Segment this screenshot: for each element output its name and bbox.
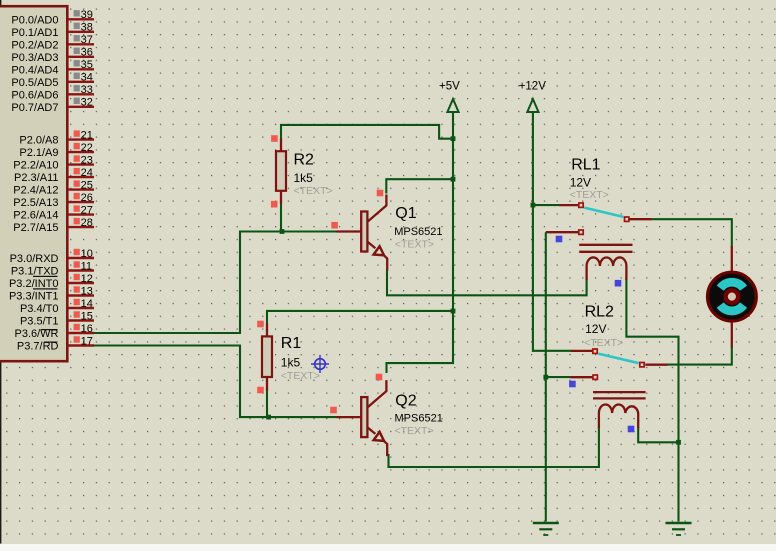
window edge line <box>0 0 1 544</box>
relay RL1 core <box>579 245 632 252</box>
svg-text:36: 36 <box>81 47 93 59</box>
pin 28 P2.7/A15 <box>13 217 94 234</box>
pin 15 P3.5/T1 <box>20 310 94 327</box>
transistor Q2 <box>337 380 388 456</box>
svg-text:<TEXT>: <TEXT> <box>395 239 434 251</box>
svg-text:P2.0/A8: P2.0/A8 <box>19 135 58 147</box>
lead RL1 NO contact <box>629 218 652 220</box>
overbar WR <box>41 329 58 330</box>
svg-text:P0.0/AD0: P0.0/AD0 <box>11 14 58 26</box>
svg-text:RL1: RL1 <box>571 156 600 173</box>
ground right <box>666 523 692 535</box>
svg-text:P2.5/A13: P2.5/A13 <box>13 197 58 209</box>
state marker blue 4 <box>628 426 635 433</box>
pin 22 P2.1/A9 <box>19 142 94 159</box>
resistor R1 <box>262 324 272 391</box>
pin 25 P2.4/A12 <box>13 179 94 196</box>
wire RL1 NO to motor top <box>652 219 732 247</box>
state marker red 1 <box>271 135 278 142</box>
wire R1 bottom to node B <box>266 389 268 417</box>
pin 26 P2.5/A13 <box>13 192 94 209</box>
svg-text:15: 15 <box>81 310 93 322</box>
overbar INT0 <box>33 276 58 277</box>
wire +12V rail <box>533 111 572 351</box>
RL2 NO contact <box>640 363 644 367</box>
relay RL1 coil <box>587 257 627 280</box>
svg-text:P3.2/INT0: P3.2/INT0 <box>9 278 59 290</box>
lead RL2 pole <box>571 350 592 352</box>
resistor R2 <box>276 139 286 204</box>
pin 23 P2.2/A10 <box>13 154 94 171</box>
svg-text:P2.3/A11: P2.3/A11 <box>14 172 58 184</box>
svg-text:37: 37 <box>81 34 93 46</box>
svg-text:P3.4/T0: P3.4/T0 <box>20 303 59 315</box>
svg-text:P0.1/AD1: P0.1/AD1 <box>11 27 58 39</box>
state marker red 2 <box>271 201 278 208</box>
svg-text:10: 10 <box>81 248 93 260</box>
svg-text:<TEXT>: <TEXT> <box>584 337 623 349</box>
svg-text:13: 13 <box>81 285 93 297</box>
svg-text:<TEXT>: <TEXT> <box>570 189 609 201</box>
power +5V <box>439 81 460 113</box>
power +12V <box>519 81 547 113</box>
svg-text:R1: R1 <box>281 335 302 352</box>
pin 39 P0.0/AD0 <box>11 9 94 26</box>
svg-text:P0.6/AD6: P0.6/AD6 <box>11 89 58 101</box>
state marker blue 3 <box>569 381 576 388</box>
pin 34 P0.5/AD5 <box>11 72 94 89</box>
transistor Q1 <box>337 195 388 271</box>
wire pin16 to node A <box>94 232 337 334</box>
state marker blue 2 <box>615 280 622 287</box>
svg-text:Q2: Q2 <box>395 393 416 410</box>
junction (453,311) <box>451 309 456 314</box>
ground left <box>533 523 559 535</box>
lead RL2 NO contact <box>645 364 667 366</box>
motor bottom lead <box>731 322 733 348</box>
svg-text:+5V: +5V <box>439 81 460 93</box>
svg-text:28: 28 <box>81 217 93 229</box>
svg-text:P2.4/A12: P2.4/A12 <box>13 185 58 197</box>
microcontroller U1 body <box>0 6 67 361</box>
pin 14 P3.4/T0 <box>20 298 94 315</box>
wire RL1 coil to ground rail <box>626 277 678 522</box>
state marker blue 1 <box>556 236 563 243</box>
pin 35 P0.4/AD4 <box>11 59 94 76</box>
svg-text:P0.4/AD4: P0.4/AD4 <box>11 64 58 76</box>
pin 36 P0.3/AD3 <box>11 47 94 64</box>
pin 16 P3.6/WR <box>14 323 94 340</box>
RL1 pole contact <box>579 203 583 207</box>
svg-text:MPS6521: MPS6521 <box>394 226 442 238</box>
wire +5V rail <box>387 111 454 374</box>
wire Q1 collector to rail <box>386 179 453 193</box>
RL2 NC contact <box>593 375 597 379</box>
svg-text:1k5: 1k5 <box>294 171 314 185</box>
lead RL1 pole <box>560 204 579 206</box>
svg-text:MPS6521: MPS6521 <box>395 412 443 424</box>
svg-text:12V: 12V <box>585 322 606 336</box>
wire RL1 NC to ground <box>545 232 547 521</box>
svg-text:RL2: RL2 <box>585 304 614 321</box>
wire pin17 to node B <box>94 346 337 418</box>
RL1 NC contact <box>579 230 583 234</box>
state marker red 4 <box>377 190 384 197</box>
pin 37 P0.2/AD2 <box>11 34 94 51</box>
relay RL2 coil <box>599 405 638 429</box>
wire Q1 emitter to RL1 coil <box>387 270 587 295</box>
svg-text:21: 21 <box>81 129 93 141</box>
svg-text:12: 12 <box>81 273 93 285</box>
lead RL1 NC contact <box>546 231 579 233</box>
overbar RD <box>44 342 58 343</box>
svg-text:23: 23 <box>81 154 93 166</box>
svg-text:Q1: Q1 <box>395 205 416 222</box>
svg-text:P2.6/A14: P2.6/A14 <box>13 210 58 222</box>
svg-text:38: 38 <box>81 22 93 34</box>
junction (678.5,442.3) <box>676 440 681 445</box>
RL2 armature <box>598 354 638 364</box>
pin 17 P3.7/RD <box>17 335 94 352</box>
svg-text:11: 11 <box>81 260 92 272</box>
junction (268.6,417.1) <box>266 415 271 420</box>
svg-text:16: 16 <box>81 323 93 335</box>
pin 24 P2.3/A11 <box>14 167 94 184</box>
svg-text:24: 24 <box>81 167 93 179</box>
svg-text:<TEXT>: <TEXT> <box>294 185 333 197</box>
svg-text:P3.0/RXD: P3.0/RXD <box>10 253 59 265</box>
svg-text:P0.3/AD3: P0.3/AD3 <box>11 52 58 64</box>
svg-text:P0.2/AD2: P0.2/AD2 <box>11 39 58 51</box>
svg-text:P3.3/INT1: P3.3/INT1 <box>9 291 59 303</box>
state marker red 7 <box>330 407 337 414</box>
wire +12V to RL1 pole <box>533 204 560 206</box>
RL2 pole contact <box>593 349 597 353</box>
svg-text:R2: R2 <box>294 152 315 169</box>
junction (545.8,377.1) <box>543 375 548 380</box>
lead RL2 NC contact <box>570 376 592 378</box>
svg-text:P2.7/A15: P2.7/A15 <box>13 222 58 234</box>
state marker red 6 <box>257 387 264 394</box>
svg-text:26: 26 <box>81 192 93 204</box>
svg-text:12V: 12V <box>570 176 591 190</box>
state marker red 5 <box>257 321 264 328</box>
motor top lead <box>731 246 733 272</box>
RL1 armature <box>584 208 623 217</box>
pin 33 P0.6/AD6 <box>11 84 94 101</box>
state marker red 3 <box>331 222 338 229</box>
wire motor bottom to RL2 NO <box>667 347 732 365</box>
motor M1 <box>708 272 757 321</box>
svg-text:27: 27 <box>81 204 93 216</box>
svg-text:+12V: +12V <box>519 81 547 93</box>
svg-text:34: 34 <box>81 72 93 84</box>
svg-text:25: 25 <box>81 179 93 191</box>
overbar INT1 <box>33 288 58 289</box>
pin 10 P3.0/RXD <box>10 248 94 265</box>
pin 21 P2.0/A8 <box>19 129 94 146</box>
origin marker <box>311 355 329 373</box>
svg-text:P3.5/T1: P3.5/T1 <box>20 316 59 328</box>
svg-text:P3.1/TXD: P3.1/TXD <box>11 266 59 278</box>
junction (532.9,205.1) <box>531 203 536 208</box>
svg-text:35: 35 <box>81 59 93 71</box>
svg-text:<TEXT>: <TEXT> <box>281 370 320 382</box>
pin 27 P2.6/A14 <box>13 204 94 221</box>
wire R2 bottom to node A <box>280 203 282 232</box>
pin 12 P3.2/INT0 <box>9 273 94 290</box>
svg-text:22: 22 <box>81 142 93 154</box>
svg-text:<TEXT>: <TEXT> <box>395 425 434 437</box>
svg-text:P2.2/A10: P2.2/A10 <box>13 160 58 172</box>
svg-text:P0.7/AD7: P0.7/AD7 <box>11 102 58 114</box>
relay RL2 core <box>593 392 646 398</box>
svg-text:32: 32 <box>81 97 93 109</box>
pin 38 P0.1/AD1 <box>11 22 94 39</box>
svg-text:P0.5/AD5: P0.5/AD5 <box>11 77 58 89</box>
pin 32 P0.7/AD7 <box>11 97 94 114</box>
svg-text:17: 17 <box>81 335 93 347</box>
svg-text:P2.1/A9: P2.1/A9 <box>19 147 58 159</box>
svg-text:33: 33 <box>81 84 93 96</box>
junction (282,231.5) <box>280 229 285 234</box>
pin 13 P3.3/INT1 <box>9 285 94 302</box>
svg-text:39: 39 <box>81 9 93 21</box>
pin 11 P3.1/TXD <box>11 260 94 277</box>
RL1 NO contact <box>625 217 629 221</box>
wire R2 top to +5V rail <box>281 125 453 140</box>
state marker red 8 <box>376 374 383 381</box>
junction (453,138.7) <box>451 136 456 141</box>
wire RL2 NC branch <box>546 376 571 378</box>
wire Q2 emitter to RL2 coil <box>389 427 599 467</box>
wire R1 top to rail <box>267 311 453 325</box>
junction (453,179.2) <box>451 177 456 182</box>
wire RL2 coil to ground rail <box>638 427 678 442</box>
svg-text:14: 14 <box>81 298 93 310</box>
svg-text:1k5: 1k5 <box>281 356 301 370</box>
